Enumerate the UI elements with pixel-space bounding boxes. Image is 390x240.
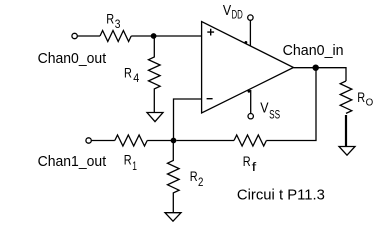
wire [345, 115, 347, 147]
svg-text:V: V [260, 100, 268, 117]
resistor R3 [100, 31, 131, 42]
label VSS [260, 100, 280, 122]
svg-text:4: 4 [133, 73, 140, 85]
label R2 [190, 168, 204, 189]
junction (VDD pin) [245, 41, 248, 44]
resistor R4 [149, 36, 161, 113]
svg-text:V: V [223, 2, 231, 19]
label VDD [223, 2, 243, 21]
svg-text:R: R [124, 152, 132, 168]
label R4 [124, 65, 140, 85]
ground (R4) [147, 113, 163, 122]
svg-text:O: O [366, 97, 374, 109]
svg-text:3: 3 [115, 19, 121, 31]
wire [147, 140, 173, 142]
svg-text:R: R [190, 168, 198, 184]
wire (inverting input feedback branch) [174, 99, 202, 141]
terminal Chan0_out [72, 33, 77, 38]
svg-text:R: R [106, 11, 114, 27]
ground (Ro) [339, 147, 355, 156]
wire [131, 35, 201, 37]
wire [249, 20, 251, 45]
terminal Chan1_out [86, 138, 91, 143]
node junction R3/R4 [151, 33, 157, 39]
wire [78, 35, 101, 37]
wire [345, 67, 347, 81]
wire [91, 140, 114, 142]
svg-text:R: R [124, 65, 132, 81]
svg-text:Chan0_out: Chan0_out [38, 50, 107, 67]
resistor Rf [234, 135, 266, 146]
svg-text:2: 2 [198, 177, 203, 189]
op-amp U1 [202, 22, 294, 114]
svg-text:R: R [243, 153, 251, 169]
svg-text:Circui t P11.3: Circui t P11.3 [237, 187, 325, 204]
power VDD terminal [248, 15, 253, 20]
label Ro [357, 89, 373, 109]
node junction R1/R2/Rf [171, 138, 177, 144]
label R1 [124, 152, 137, 173]
power VSS terminal [248, 114, 253, 119]
label Rf [243, 153, 258, 174]
svg-text:1: 1 [132, 161, 137, 173]
svg-text:DD: DD [232, 9, 243, 21]
resistor Ro [340, 81, 352, 113]
ground (R2) [165, 213, 181, 222]
node Chan0_in [313, 65, 319, 71]
wire (feedback to output node) [266, 68, 316, 141]
junction (VSS pin) [248, 90, 251, 93]
wire (op-amp output) [294, 67, 347, 69]
svg-text:Chan0_in: Chan0_in [283, 42, 344, 59]
resistor R2 [168, 141, 180, 213]
wire [250, 90, 252, 114]
svg-text:Chan1_out: Chan1_out [38, 153, 107, 170]
label R3 [106, 11, 120, 31]
wire [177, 140, 235, 142]
resistor R1 [115, 135, 147, 146]
svg-text:SS: SS [269, 110, 280, 122]
svg-text:R: R [357, 89, 365, 105]
